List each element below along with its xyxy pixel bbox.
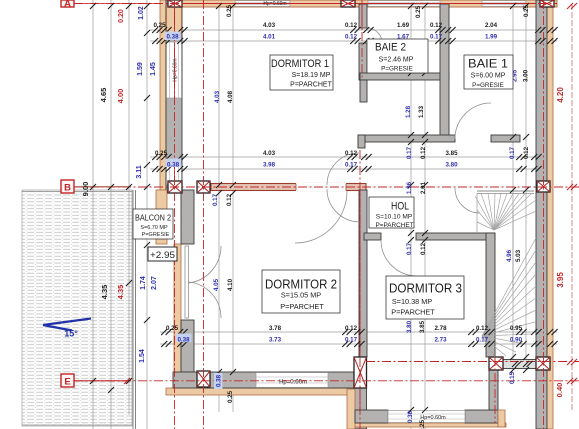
svg-text:S=10.38 MP: S=10.38 MP <box>392 297 432 306</box>
svg-text:1.02: 1.02 <box>138 6 145 20</box>
room label HOL <box>369 197 414 229</box>
svg-text:0.38: 0.38 <box>167 161 180 168</box>
svg-text:0.17: 0.17 <box>509 146 516 159</box>
dormitor3 east wall <box>486 233 495 357</box>
svg-text:P=PARCHET: P=PARCHET <box>375 222 413 229</box>
svg-text:4.01: 4.01 <box>263 34 276 41</box>
grid label B <box>61 180 74 194</box>
svg-text:1.28: 1.28 <box>405 105 412 118</box>
column C10 bottom-right <box>536 357 550 370</box>
svg-text:BAIE 2: BAIE 2 <box>375 42 406 54</box>
room label DORMITOR 1 <box>270 55 333 90</box>
svg-text:S=18.19 MP: S=18.19 MP <box>292 72 331 79</box>
svg-text:+2.95: +2.95 <box>150 250 175 261</box>
svg-text:0.17: 0.17 <box>345 161 358 168</box>
column C3 top-right <box>540 0 554 7</box>
svg-text:3.85: 3.85 <box>445 150 458 157</box>
svg-text:4.65: 4.65 <box>99 88 108 103</box>
svg-text:0.12: 0.12 <box>430 22 443 29</box>
room label BAIE 1 <box>464 55 513 89</box>
room label DORMITOR 2 <box>262 270 340 313</box>
svg-text:0.38: 0.38 <box>407 410 414 423</box>
room label BALCON 2 <box>133 209 173 239</box>
column C6 axisB right <box>537 181 550 192</box>
wall between columns <box>503 360 536 369</box>
svg-text:P=PARCHET: P=PARCHET <box>280 302 324 311</box>
svg-text:0.90: 0.90 <box>510 337 523 344</box>
svg-text:0.12: 0.12 <box>345 325 358 332</box>
svg-text:S=15.05 MP: S=15.05 MP <box>281 291 321 300</box>
svg-text:3.00: 3.00 <box>523 69 530 82</box>
svg-text:3.80: 3.80 <box>406 320 413 333</box>
door stair entry <box>455 188 480 213</box>
svg-text:HOL: HOL <box>391 201 409 213</box>
svg-text:3.95: 3.95 <box>556 272 565 288</box>
svg-text:1.33: 1.33 <box>418 105 425 118</box>
slope arrow 15deg <box>43 319 91 339</box>
column C2 top-center <box>341 0 355 7</box>
svg-text:4.10: 4.10 <box>227 278 234 291</box>
svg-text:0.12: 0.12 <box>420 146 427 159</box>
svg-text:3.78: 3.78 <box>269 325 282 332</box>
svg-text:0.17: 0.17 <box>476 337 489 344</box>
door hol-dormitor2 a <box>327 189 360 222</box>
svg-text:0.25: 0.25 <box>523 4 530 17</box>
column C1 top-left <box>168 0 182 7</box>
column C4 axisB left <box>168 181 182 193</box>
svg-text:3.11: 3.11 <box>136 165 143 178</box>
svg-text:4.03: 4.03 <box>263 22 276 29</box>
svg-text:9.00: 9.00 <box>81 182 90 197</box>
svg-text:0.17: 0.17 <box>212 193 219 206</box>
svg-text:0.25: 0.25 <box>155 150 168 157</box>
svg-text:P=GRESIE: P=GRESIE <box>472 82 504 89</box>
svg-text:BALCON 2: BALCON 2 <box>135 214 171 223</box>
svg-text:3.98: 3.98 <box>263 161 276 168</box>
svg-text:1.96: 1.96 <box>406 181 413 194</box>
winder staircase <box>475 191 536 357</box>
column C8 central <box>354 357 367 388</box>
svg-text:0.20: 0.20 <box>118 9 125 23</box>
svg-text:A: A <box>64 0 71 10</box>
svg-text:0.25: 0.25 <box>415 5 422 18</box>
svg-text:0.12: 0.12 <box>345 150 358 157</box>
svg-text:0.95: 0.95 <box>510 325 523 332</box>
svg-text:0.12: 0.12 <box>476 325 489 332</box>
svg-text:P=PARCHET: P=PARCHET <box>290 82 332 89</box>
top exterior wall with windows <box>161 0 557 7</box>
svg-text:Hp=0.60m: Hp=0.60m <box>173 58 179 81</box>
rotated dimension texts <box>212 4 530 429</box>
door dormitor3 <box>381 240 417 276</box>
svg-text:DORMITOR 2: DORMITOR 2 <box>265 277 337 292</box>
svg-text:0.17: 0.17 <box>430 34 443 41</box>
door dormitor1 <box>327 153 359 185</box>
svg-text:5.03: 5.03 <box>515 249 522 262</box>
svg-text:Hp=0.60m: Hp=0.60m <box>263 1 286 7</box>
svg-text:2.04: 2.04 <box>485 22 498 29</box>
svg-text:P=GRESIE: P=GRESIE <box>142 232 170 238</box>
svg-text:0.17: 0.17 <box>406 146 413 159</box>
horizontal dimension texts <box>153 22 522 344</box>
svg-text:4.35: 4.35 <box>116 285 125 300</box>
svg-text:4.35: 4.35 <box>100 285 109 300</box>
dimension ticks <box>90 3 558 413</box>
svg-text:BAIE 1: BAIE 1 <box>468 57 508 71</box>
svg-text:E: E <box>64 377 70 388</box>
svg-text:1.54: 1.54 <box>139 349 146 363</box>
room label BAIE 2 <box>367 39 428 73</box>
interior walls baie area <box>358 4 520 149</box>
french door balcony <box>185 246 221 318</box>
svg-text:0.40: 0.40 <box>555 383 564 398</box>
door baie1 <box>455 103 491 139</box>
svg-text:3.80: 3.80 <box>445 161 458 168</box>
svg-text:1.74: 1.74 <box>140 276 147 290</box>
hatched terrace slab <box>22 190 132 426</box>
dormitor3 bottom wall with window <box>347 370 506 429</box>
grid label E <box>61 374 74 388</box>
door baie2 <box>367 28 382 43</box>
dormitor3 north wall <box>364 233 495 240</box>
svg-text:2.01: 2.01 <box>420 181 427 194</box>
svg-text:0.17: 0.17 <box>406 242 413 255</box>
svg-text:1.59: 1.59 <box>137 62 144 76</box>
left exterior wall with windows <box>160 0 182 193</box>
svg-text:4.05: 4.05 <box>213 278 220 291</box>
svg-text:2.07: 2.07 <box>151 276 158 290</box>
svg-text:DORMITOR 3: DORMITOR 3 <box>389 282 462 296</box>
svg-text:0.12: 0.12 <box>345 22 358 29</box>
wall on axis B <box>211 183 366 191</box>
column C9 bottom <box>489 357 503 370</box>
level marker +2.95 <box>148 247 177 261</box>
balcony parapet wall <box>156 190 167 244</box>
right exterior wall <box>536 0 553 429</box>
svg-text:3.73: 3.73 <box>269 337 282 344</box>
svg-text:2.73: 2.73 <box>434 337 447 344</box>
svg-text:1.99: 1.99 <box>485 34 498 41</box>
svg-text:0.12: 0.12 <box>523 146 530 159</box>
svg-text:0.12: 0.12 <box>345 34 358 41</box>
svg-text:4.03: 4.03 <box>263 150 276 157</box>
balcony west edge <box>133 190 136 429</box>
svg-text:0.25: 0.25 <box>153 22 166 29</box>
column C5 axisB <box>197 181 210 193</box>
svg-text:0.15: 0.15 <box>509 371 516 384</box>
svg-text:4.00: 4.00 <box>116 89 125 104</box>
svg-text:S=10.10 MP: S=10.10 MP <box>376 214 413 221</box>
svg-text:3.85: 3.85 <box>419 320 426 333</box>
svg-text:0.25: 0.25 <box>419 419 426 429</box>
room label DORMITOR 3 <box>386 276 464 319</box>
svg-text:0.38: 0.38 <box>166 34 179 41</box>
door hol-dormitor2 b <box>295 191 347 243</box>
central interior wall <box>354 190 367 429</box>
svg-text:P=GRESIE: P=GRESIE <box>381 66 413 73</box>
svg-text:0.38: 0.38 <box>216 374 223 387</box>
svg-text:0.25: 0.25 <box>226 4 233 17</box>
svg-text:DORMITOR 1: DORMITOR 1 <box>271 58 329 70</box>
svg-text:4.03: 4.03 <box>214 90 221 103</box>
svg-text:0.25: 0.25 <box>166 325 179 332</box>
svg-text:0.17: 0.17 <box>345 337 358 344</box>
svg-text:1.69: 1.69 <box>397 22 410 29</box>
right red dimension chain <box>555 3 577 412</box>
svg-text:P=PARCHET: P=PARCHET <box>391 308 435 317</box>
svg-text:15°: 15° <box>64 329 78 339</box>
svg-text:4.08: 4.08 <box>227 90 234 103</box>
svg-text:2.78: 2.78 <box>434 325 447 332</box>
svg-text:4.96: 4.96 <box>506 249 513 262</box>
svg-text:0.38: 0.38 <box>177 337 190 344</box>
bottom wall dormitor2 with window <box>166 372 356 395</box>
grid label A <box>61 0 74 10</box>
svg-text:0.12: 0.12 <box>420 242 427 255</box>
svg-text:0.12: 0.12 <box>226 193 233 206</box>
svg-text:S=6.00 MP: S=6.00 MP <box>471 73 506 80</box>
svg-text:0.25: 0.25 <box>227 390 234 403</box>
lower left exterior wall <box>174 190 194 390</box>
svg-text:S=2.46 MP: S=2.46 MP <box>379 57 414 64</box>
svg-text:4.20: 4.20 <box>556 87 565 103</box>
svg-text:B: B <box>64 183 71 194</box>
svg-text:S=6.70 MP: S=6.70 MP <box>140 225 168 231</box>
svg-text:1.45: 1.45 <box>150 62 157 76</box>
column C7 axisE left <box>197 371 210 387</box>
left column dimension texts <box>81 6 158 363</box>
